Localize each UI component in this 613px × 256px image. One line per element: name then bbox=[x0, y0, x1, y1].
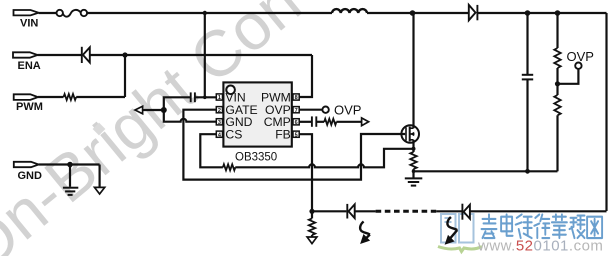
wire OVP pin stub bbox=[299, 109, 322, 111]
resistor R6 OVP lower bbox=[554, 95, 560, 115]
svg-text:3: 3 bbox=[218, 120, 221, 126]
capacitor C3 output bbox=[522, 75, 533, 80]
svg-text:ENA: ENA bbox=[18, 60, 41, 72]
wire C2 to R3 bbox=[316, 121, 324, 123]
wire ground line right bbox=[414, 170, 558, 172]
wire source down to resistor bbox=[412, 140, 414, 152]
input tag VIN bbox=[14, 10, 39, 15]
svg-text:2: 2 bbox=[218, 108, 221, 114]
wire LED1 to dashes bbox=[355, 210, 376, 212]
input tag PWM bbox=[14, 94, 38, 100]
wire CS sense line with hops bbox=[235, 149, 413, 168]
resistor R1 PWM bbox=[64, 94, 77, 100]
capacitor C1 VIN bbox=[191, 92, 195, 102]
node OVP divider junction bbox=[555, 10, 561, 16]
node source sense junction bbox=[412, 147, 416, 151]
svg-text:PWM: PWM bbox=[16, 101, 43, 113]
wire node down to GND pin with hop bbox=[164, 110, 217, 122]
input tag ENA bbox=[13, 52, 38, 57]
wire ENA tag to diode bbox=[38, 54, 82, 56]
wire diode to output cap node bbox=[477, 12, 606, 14]
arrow FB return down bbox=[307, 237, 317, 244]
U1 pin labels right bbox=[261, 91, 291, 142]
svg-text:www.520101.com: www.520101.com bbox=[477, 238, 603, 255]
wire rail down to R5 bbox=[556, 13, 558, 48]
watermark gray On-Bright text bbox=[0, 0, 314, 256]
node rail drop bottom bbox=[203, 96, 207, 100]
wire VIN tag to fuse bbox=[39, 12, 57, 14]
arrow net left bbox=[135, 106, 143, 114]
node OVP terminal circle bbox=[322, 107, 328, 113]
U1 pin1 dot bbox=[226, 86, 235, 95]
wire dashes to LED2 bbox=[436, 210, 461, 212]
wire R6 to ground line bbox=[556, 115, 558, 171]
wire CMP pin to cap bbox=[299, 121, 311, 123]
watermark chinese site name bbox=[482, 215, 603, 239]
wire node up to cap bbox=[164, 97, 191, 110]
wire arrow to node bbox=[143, 109, 164, 111]
U1 pin labels left bbox=[225, 91, 257, 142]
ground earth input bbox=[63, 188, 78, 195]
node source ground junction bbox=[412, 170, 416, 174]
svg-text:GND: GND bbox=[18, 170, 43, 182]
LED D4 emission arrow bbox=[447, 217, 457, 238]
wire tap to OVP terminal bbox=[558, 69, 579, 84]
wire GATE pin to mosfet gate bbox=[183, 110, 405, 180]
watermark book icon bbox=[441, 214, 474, 243]
svg-text:OVP: OVP bbox=[334, 102, 361, 117]
inductor L1 bbox=[332, 9, 367, 13]
resistor R7 FB return bbox=[309, 218, 315, 235]
svg-text:OB3350: OB3350 bbox=[235, 151, 277, 163]
resistor R5 OVP upper bbox=[554, 48, 560, 68]
node LED return junction bbox=[309, 209, 314, 214]
watermark gray diamond bbox=[93, 123, 106, 136]
U1 right pin boxes 8-5 bbox=[293, 94, 299, 138]
transistor Q1 MOSFET bbox=[401, 125, 419, 143]
wire ENA net down to PWM pin bbox=[299, 55, 312, 97]
node drain rail junction bbox=[410, 10, 416, 16]
arrow GND down bbox=[95, 187, 105, 194]
LED D3 emission arrow bbox=[360, 222, 370, 239]
wire rail down to output cap bbox=[526, 13, 528, 74]
node OVP tap junction bbox=[555, 81, 560, 86]
node rail drop top bbox=[203, 11, 207, 15]
node OVP terminal right circle bbox=[575, 62, 581, 68]
wire cap to pin1 bbox=[195, 96, 216, 98]
node decouple junction bbox=[161, 107, 167, 113]
wire output cap to ground line bbox=[526, 79, 528, 171]
svg-text:CS: CS bbox=[225, 127, 242, 141]
node ENA PWM junction bbox=[122, 52, 127, 57]
node cap ground junction bbox=[525, 169, 530, 174]
wire LED2 to right rail bbox=[470, 210, 607, 212]
svg-text:FB: FB bbox=[275, 127, 291, 141]
resistor R3 CMP bbox=[324, 119, 336, 125]
node GND junction bbox=[67, 162, 73, 168]
wire dashed LED string bbox=[376, 210, 437, 213]
wire ENA junction down to PWM line bbox=[124, 55, 126, 97]
wire resistor to ground node bbox=[412, 169, 414, 178]
wire return junction down bbox=[311, 211, 313, 218]
wire fuse to inductor bbox=[87, 12, 332, 14]
op-amp U1 OB3350 body bbox=[223, 82, 291, 146]
diode D1 ENA bbox=[82, 47, 90, 63]
wire VIN rail drop to pin1 bbox=[204, 13, 206, 97]
svg-text:6: 6 bbox=[295, 120, 298, 126]
wire GND tag to arrow drop bbox=[39, 163, 100, 165]
wire R7 to arrow bbox=[311, 235, 313, 237]
LED D3 bbox=[347, 204, 354, 219]
svg-text:1: 1 bbox=[218, 95, 221, 101]
U1 left pin boxes 1-4 bbox=[216, 94, 222, 138]
wire R3 to arrow bbox=[336, 121, 362, 123]
wire CS pin to sense line bbox=[200, 134, 223, 167]
wire junction to LED1 bbox=[312, 210, 346, 212]
wire R5 to tap bbox=[556, 68, 558, 95]
wire ENA diode to junction bbox=[90, 54, 312, 56]
svg-text:OVP: OVP bbox=[567, 49, 594, 64]
svg-text:7: 7 bbox=[295, 108, 298, 114]
wire drain up to rail bbox=[412, 13, 414, 128]
wire GND node to earth bbox=[69, 165, 71, 187]
svg-text:8: 8 bbox=[295, 95, 298, 101]
wire inductor to drain node bbox=[367, 12, 469, 14]
ground power stage bbox=[405, 178, 423, 185]
svg-text:5: 5 bbox=[295, 132, 298, 138]
arrow CMP net right bbox=[362, 118, 369, 126]
svg-text:VIN: VIN bbox=[20, 18, 38, 30]
input tag GND bbox=[14, 162, 39, 167]
node output cap junction bbox=[525, 10, 531, 16]
wire FB pin down to LED return bbox=[299, 134, 312, 211]
wire GND right drop bbox=[98, 165, 100, 188]
diode D2 rectifier bbox=[469, 5, 478, 20]
resistor R4 source sense bbox=[410, 152, 416, 169]
wire PWM resistor to junction bbox=[76, 96, 125, 98]
LED D4 bbox=[462, 204, 470, 220]
resistor R2 CS sense bbox=[223, 164, 235, 170]
fuse F1 bbox=[57, 10, 88, 17]
wire output rail right edge bbox=[605, 13, 607, 211]
wire PWM tag to resistor bbox=[38, 96, 64, 98]
capacitor C2 CMP bbox=[312, 116, 316, 126]
